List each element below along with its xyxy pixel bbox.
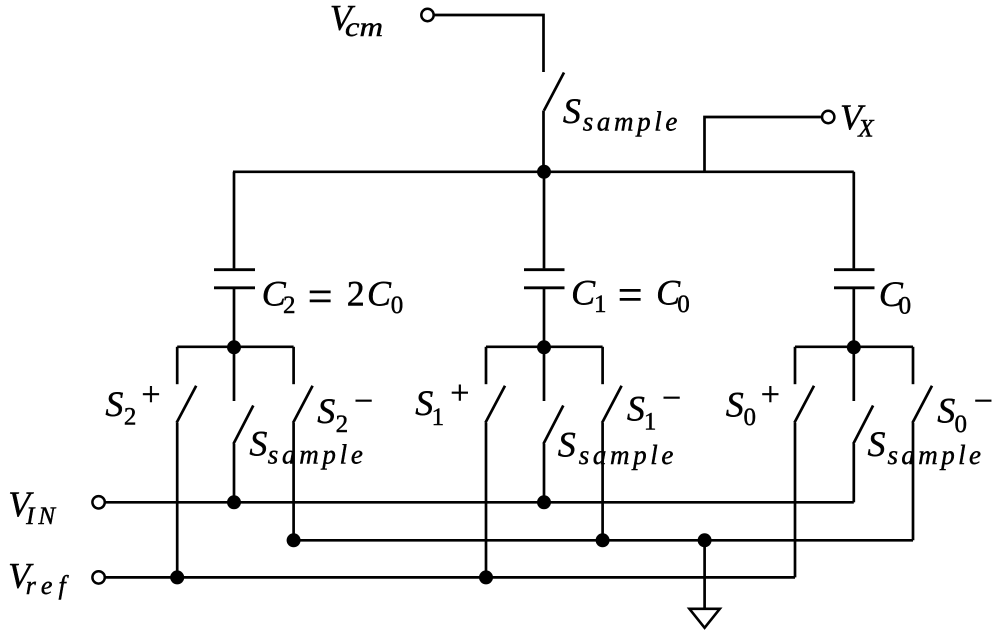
wire C1 bottom (543, 288, 546, 348)
wire S0+ to Vref (794, 423, 797, 578)
wire top bus (233, 170, 854, 173)
svg-text:1: 1 (432, 404, 445, 431)
junction dot VIN bank2 (537, 495, 551, 509)
wire VIN rail (105, 501, 854, 504)
svg-text:=: = (618, 270, 643, 319)
svg-text:+: + (141, 376, 160, 413)
wire S0- to minus bus (912, 423, 915, 540)
terminal Vcm (421, 9, 433, 21)
wire ground stem (703, 540, 706, 609)
capacitor C1 (524, 270, 565, 288)
svg-text:−: − (354, 383, 373, 420)
svg-text:0: 0 (391, 292, 404, 319)
junction dot top node (537, 165, 551, 179)
switch Ssample bank2 (543, 347, 563, 444)
label Vref (8, 556, 69, 601)
svg-text:cm: cm (345, 12, 383, 42)
svg-text:2: 2 (336, 411, 349, 438)
label C1 = C0 (571, 270, 690, 319)
svg-text:0: 0 (677, 291, 690, 318)
svg-text:S: S (726, 385, 744, 425)
wire bank2 bar (486, 345, 603, 348)
svg-text:ref: ref (26, 571, 70, 600)
wire C2 bottom (233, 288, 236, 348)
wire bank3 bar (795, 345, 913, 348)
wire switch to top node (542, 111, 545, 173)
wire minus bus (294, 539, 913, 542)
svg-text:S: S (627, 389, 645, 429)
svg-text:0: 0 (744, 404, 757, 431)
label Vcm (330, 0, 383, 42)
label VIN (8, 484, 56, 530)
svg-text:1: 1 (644, 409, 657, 436)
svg-text:0: 0 (955, 411, 968, 438)
wire bus to C2 (233, 172, 236, 269)
switch Ssample bank3 (853, 347, 873, 444)
label C2 = 2C0 (262, 272, 404, 321)
svg-text:1: 1 (594, 291, 607, 318)
label S1- (627, 380, 681, 435)
junction dot minus bus S1- (596, 533, 610, 547)
svg-text:=: = (308, 272, 333, 321)
wire Ssample bank3 to VIN (852, 444, 855, 502)
wire Vx branch (705, 117, 823, 172)
label Vx (840, 97, 875, 142)
svg-text:X: X (857, 115, 875, 142)
wire S2- to minus bus (292, 423, 295, 540)
switch S0+ (794, 347, 814, 423)
terminal Vx (822, 111, 834, 123)
switch S0- (912, 347, 932, 423)
label S2+ (105, 376, 160, 430)
svg-text:S: S (558, 425, 576, 465)
label Ssample bank1 (249, 424, 362, 470)
svg-text:S: S (415, 383, 433, 423)
switch S2- (293, 347, 313, 423)
svg-text:S: S (937, 391, 955, 431)
svg-text:S: S (105, 384, 123, 424)
wire C0 bottom (852, 288, 855, 348)
terminal Vref (92, 571, 104, 583)
capacitor C0 (834, 270, 875, 288)
svg-text:C: C (367, 273, 392, 313)
label Ssample bank3 (868, 424, 982, 470)
wire bus to C1 (543, 172, 546, 269)
switch Ssample bank1 (233, 347, 253, 444)
junction dot Vref bank1 (170, 570, 184, 584)
node dot bank3 (847, 340, 861, 354)
junction dot minus bus ground tap (698, 533, 712, 547)
node dot bank2 (537, 340, 551, 354)
junction dot Vref bank2 (479, 570, 493, 584)
svg-text:S: S (249, 424, 267, 464)
svg-text:−: − (974, 383, 993, 420)
svg-text:IN: IN (25, 503, 56, 530)
ground (689, 609, 719, 628)
svg-text:S: S (317, 391, 335, 431)
label S0+ (726, 377, 780, 431)
capacitor C2 (214, 270, 255, 288)
svg-text:+: + (450, 375, 469, 412)
wire S2+ to Vref (176, 423, 179, 578)
terminal VIN (92, 496, 104, 508)
junction dot minus bus S2- (287, 533, 301, 547)
svg-text:2: 2 (124, 404, 136, 431)
label S2- (317, 383, 373, 438)
label C0 (879, 274, 911, 320)
svg-text:C: C (571, 273, 596, 313)
switch S2+ (177, 347, 197, 423)
svg-text:S: S (868, 424, 886, 464)
label S0- (937, 383, 993, 438)
wire bank1 bar (177, 345, 293, 348)
svg-text:−: − (662, 380, 681, 417)
wire Ssample bank1 to VIN (233, 444, 236, 502)
wire Ssample bank2 to VIN (543, 444, 546, 502)
svg-text:2: 2 (283, 292, 296, 319)
node dot bank1 (227, 340, 241, 354)
junction dot VIN bank1 (227, 495, 241, 509)
svg-text:S: S (563, 91, 581, 131)
wire Vcm to switch (434, 15, 543, 72)
wire S1- to minus bus (601, 423, 604, 540)
wire Vref rail (105, 576, 795, 579)
label Ssample bank2 (558, 425, 674, 470)
label S1+ (415, 375, 469, 431)
switch Ssample top blade (544, 73, 564, 111)
svg-text:2: 2 (347, 273, 365, 313)
wire bus to C0 (852, 172, 855, 269)
label Ssample top (563, 91, 677, 137)
wire S1+ to Vref (485, 423, 488, 578)
svg-text:0: 0 (899, 293, 912, 320)
svg-text:+: + (761, 377, 780, 414)
switch S1+ (485, 347, 505, 423)
switch S1- (602, 347, 622, 423)
